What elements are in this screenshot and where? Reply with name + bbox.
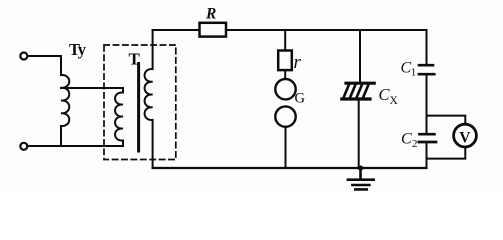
autotransformer Ty winding bbox=[61, 75, 69, 126]
capacitor C1 bbox=[419, 65, 434, 74]
wire voltmeter loop bottom bbox=[427, 147, 466, 159]
capacitor C2 bbox=[419, 134, 436, 142]
wire C1 to C2 bbox=[426, 75, 428, 134]
wire voltmeter loop top bbox=[427, 116, 466, 125]
wire r branch top lead bbox=[284, 30, 286, 51]
resistor R bbox=[200, 23, 227, 37]
capacitor Cx test object bottom plate bbox=[342, 97, 370, 100]
wire Ty coil bottom lead bbox=[60, 126, 62, 146]
wire sphere gap bottom lead bbox=[285, 127, 287, 168]
wire C2 bottom to rail bbox=[426, 143, 428, 169]
wire top rail right segment bbox=[226, 30, 427, 65]
transformer T core bbox=[137, 64, 140, 152]
resistor r bbox=[278, 51, 292, 71]
svg-text:G: G bbox=[295, 91, 306, 107]
svg-text:1: 1 bbox=[411, 67, 417, 79]
capacitor Cx hatching bbox=[344, 85, 369, 98]
svg-text:X: X bbox=[390, 95, 399, 107]
wire top rail left segment bbox=[153, 29, 200, 31]
wire Cx bottom lead bbox=[358, 100, 360, 168]
capacitor Cx test object top plate bbox=[346, 82, 374, 85]
ground bbox=[348, 168, 374, 189]
terminal top input bbox=[20, 53, 27, 60]
transformer T secondary winding bbox=[145, 30, 153, 168]
voltmeter V bbox=[454, 124, 477, 147]
wire Ty tap to T primary top bbox=[61, 88, 123, 93]
svg-text:V: V bbox=[459, 130, 471, 147]
wire bottom input to T primary bottom bbox=[28, 145, 123, 147]
sphere gap G upper sphere bbox=[275, 79, 295, 99]
transformer T primary winding bbox=[115, 92, 123, 146]
wire r to sphere gap bbox=[284, 70, 286, 79]
svg-text:Ty: Ty bbox=[69, 40, 87, 59]
terminal bottom input bbox=[20, 143, 27, 150]
wire top terminal to Ty coil bbox=[28, 56, 61, 75]
junction ground node bbox=[358, 165, 363, 170]
sphere gap G lower sphere bbox=[275, 106, 295, 126]
wire bottom rail bbox=[153, 167, 427, 169]
svg-text:r: r bbox=[294, 52, 302, 73]
wire Cx top lead bbox=[359, 30, 361, 82]
svg-text:R: R bbox=[205, 6, 216, 23]
svg-text:C: C bbox=[401, 131, 412, 148]
dashed enclosure bbox=[104, 45, 176, 160]
svg-text:2: 2 bbox=[412, 138, 418, 150]
